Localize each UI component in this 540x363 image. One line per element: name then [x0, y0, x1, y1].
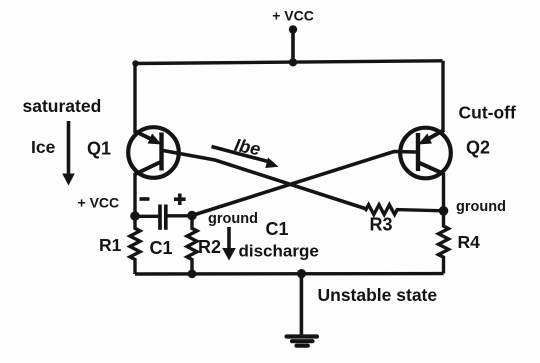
transistor Q2 emitter line with arrow into bar [427, 130, 444, 140]
transistor Q2 collector line (lower) [419, 163, 445, 175]
svg-text:Q2: Q2 [466, 138, 490, 158]
node VCC junction on top rail [289, 58, 297, 66]
transistor Q2 body circle [400, 128, 451, 179]
wire Q2 collector down to R3/R4 junction [442, 173, 445, 211]
arrow C1 discharge (down) [227, 227, 231, 250]
wire right vertical (top rail to Q2) [441, 61, 444, 132]
svg-text:R4: R4 [458, 232, 481, 252]
wire Q1 emitter down to +VCC node [133, 173, 136, 216]
svg-text:R1: R1 [99, 235, 122, 255]
svg-text:R2: R2 [198, 237, 221, 257]
wire bottom rail [135, 272, 444, 276]
svg-text:saturated: saturated [23, 96, 102, 116]
wire left vertical (top rail to Q1 collector) [133, 63, 136, 134]
svg-text:+ VCC: + VCC [78, 195, 120, 211]
svg-text:R3: R3 [370, 215, 393, 235]
wire cross-coupling: C1 node to Q2 base [192, 152, 416, 216]
wire ground stem [300, 274, 304, 335]
transistor Q2 base bar [416, 133, 420, 171]
svg-text:Unstable state: Unstable state [318, 285, 438, 305]
svg-text:Q1: Q1 [87, 139, 111, 159]
node C1 left junction [130, 211, 140, 221]
node R3/R4/Q2 junction [439, 206, 449, 216]
capacitor C1 right plate [164, 205, 168, 230]
node R2 bottom junction [188, 269, 197, 278]
node ground junction [297, 269, 306, 278]
wire VCC stub down to top rail [291, 30, 295, 63]
svg-text:ground: ground [456, 199, 506, 215]
transistor Q1 base bar [159, 133, 163, 171]
resistor R1 [130, 216, 140, 274]
svg-text:Cut-off: Cut-off [459, 103, 517, 123]
svg-text:ground: ground [208, 211, 258, 227]
svg-text:C1: C1 [150, 238, 173, 258]
transistor Q1 emitter line with arrow into bar [135, 131, 153, 140]
label plus polarity [174, 197, 186, 201]
transistor Q1 body circle [128, 127, 179, 178]
svg-text:discharge: discharge [239, 242, 319, 261]
resistor R3 (horizontal) [365, 205, 444, 215]
node top-left corner dot [132, 60, 138, 66]
wire capacitor right lead [166, 214, 192, 217]
arrow Ice current direction (down) [67, 121, 71, 175]
resistor R2 [187, 216, 197, 275]
node VCC terminal dot [289, 25, 297, 33]
wire capacitor left lead [135, 215, 159, 218]
ground symbol bars [287, 334, 318, 338]
arrow Ibe (base current) [212, 147, 270, 162]
node C1 right junction [187, 211, 197, 221]
resistor R4 [439, 211, 449, 274]
svg-text:C1: C1 [266, 219, 289, 239]
svg-text:Ice: Ice [31, 137, 56, 157]
transistor Q1 collector line (lower) [135, 162, 161, 175]
wire top rail [135, 61, 443, 64]
label minus polarity [140, 197, 150, 201]
capacitor C1 left plate [158, 205, 162, 230]
wire cross-coupling: Q1 base to R3 [163, 151, 365, 209]
svg-text:Ibe: Ibe [233, 135, 262, 160]
svg-text:+ VCC: + VCC [272, 8, 314, 24]
